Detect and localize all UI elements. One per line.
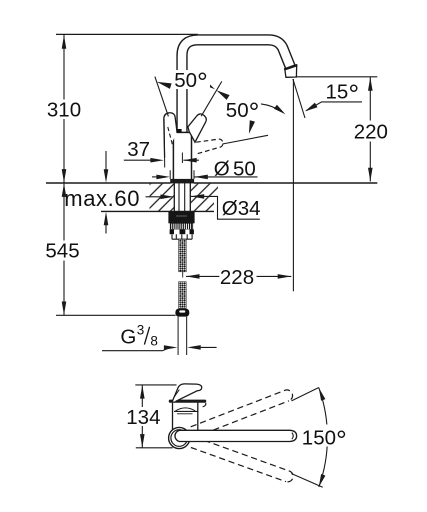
310 dimension line	[63, 35, 65, 183]
braided supply hose lower part	[179, 282, 187, 309]
37 dimension tail and arrow	[124, 159, 151, 161]
svg-text:8: 8	[150, 334, 158, 349]
lever handle, tilted-open position	[188, 114, 206, 142]
134 dimension line	[141, 385, 143, 448]
top extension line (310 upper extent)	[56, 33, 198, 35]
50deg right leg line	[201, 81, 222, 116]
50deg left leg line	[155, 77, 169, 117]
knurled ring	[170, 223, 193, 229]
svg-text:max.60: max.60	[64, 186, 140, 211]
svg-text:15°: 15°	[326, 79, 360, 109]
braided supply hose upper part	[179, 239, 187, 272]
swivel base rings	[169, 427, 190, 448]
228 dimension line	[186, 275, 291, 277]
swivel spout upper position (dashed)	[191, 390, 293, 437]
bracket legs	[172, 234, 192, 239]
G3/8 right arrow	[187, 345, 201, 350]
worktop top surface line	[46, 182, 377, 184]
150deg arc	[319, 388, 328, 487]
15deg leader line	[306, 102, 362, 111]
handle base plate	[169, 400, 206, 403]
50deg right arc arrow (bowtie pair)	[202, 80, 215, 90]
220 dimension line	[369, 77, 371, 182]
svg-text:G: G	[120, 326, 136, 349]
spout tube outline	[182, 40, 290, 133]
G3/8 threaded pipe	[178, 317, 187, 355]
svg-text:37: 37	[127, 138, 150, 161]
plan body	[173, 403, 198, 430]
545 bottom extension line	[56, 314, 176, 316]
bracket band	[170, 229, 194, 234]
134 bottom extension line	[136, 447, 173, 449]
hose break mark	[182, 271, 184, 277]
outlet height extension line	[296, 76, 378, 78]
handle hidden edge (dashed)	[168, 127, 173, 148]
O50 extension lines	[170, 170, 194, 179]
plan lever handle	[172, 384, 202, 402]
svg-text:134: 134	[126, 406, 160, 429]
50deg left arc arrow	[157, 82, 172, 89]
vertical reference line from outlet	[292, 79, 294, 291]
svg-text:50°: 50°	[226, 98, 260, 128]
centerline tick	[181, 153, 183, 164]
lever handle, horizontal position (dashed)	[195, 139, 223, 154]
aerator inner arc	[292, 433, 293, 440]
svg-text:220: 220	[354, 121, 388, 144]
label 150deg	[300, 425, 347, 447]
cartridge dome line	[176, 408, 196, 411]
mounting shank tubes through worktop	[174, 183, 190, 212]
worktop bottom surface line	[101, 210, 214, 212]
svg-text:3: 3	[137, 323, 145, 338]
svg-text:Ø50: Ø50	[214, 157, 256, 180]
15deg tilted line from outlet	[293, 79, 305, 118]
max.60 lower arrow	[105, 225, 107, 234]
label 228	[220, 267, 256, 287]
base flange (O50)	[171, 179, 194, 183]
cartridge body	[173, 132, 191, 179]
aerator tip	[285, 65, 297, 77]
extension line from handle front (for 37)	[163, 119, 166, 168]
label 50deg first	[172, 70, 210, 89]
hose end nut	[175, 309, 189, 317]
mounting nut block	[168, 212, 194, 224]
545 dimension line	[63, 183, 65, 315]
svg-text:Ø34: Ø34	[222, 197, 261, 220]
15deg arc with arrow	[261, 104, 281, 112]
svg-text:228: 228	[220, 266, 254, 289]
G3/8 leader line	[102, 348, 170, 351]
lever handle, near-vertical position	[164, 113, 177, 158]
134 top extension line	[135, 384, 176, 386]
counter-top hatched section	[150, 184, 219, 212]
swivel range legs	[292, 388, 319, 401]
O34 arrows and leader	[146, 196, 161, 198]
handle axis extension line	[222, 135, 268, 144]
50deg second angle arrow onto axis line	[249, 120, 255, 134]
svg-text:310: 310	[47, 99, 81, 122]
handle pivot tab	[176, 129, 181, 133]
spout tube (plan, solid)	[175, 430, 297, 441]
swivel spout lower position (dashed)	[191, 437, 293, 482]
svg-text:150°: 150°	[302, 425, 347, 455]
svg-text:545: 545	[45, 240, 79, 263]
37 opposing arrow at centerline	[183, 159, 199, 161]
max.60 upper arrow	[105, 151, 107, 170]
O50 arrows and leader	[152, 176, 157, 178]
